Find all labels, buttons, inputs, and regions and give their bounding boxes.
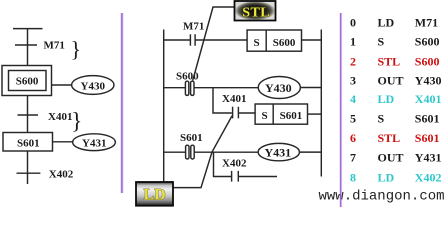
contact X402 [232,171,239,182]
wire S S600 box to right rail [302,39,322,41]
svg-text:2: 2 [350,55,356,69]
contact X401 [233,107,239,119]
svg-text:S601: S601 [280,110,303,122]
coil ellipse Y430 (ladder) [258,77,300,99]
STL contact S600 (double thick bars) [185,81,188,95]
svg-text:S600: S600 [415,55,440,69]
state S600 outer box (initial step, double border) [2,66,52,96]
svg-text:STL: STL [242,6,270,21]
svg-text:1: 1 [350,34,356,48]
purple separator line 1 [121,13,123,193]
svg-text:Y431: Y431 [265,146,292,160]
svg-text:X401: X401 [222,93,246,105]
instruction list row 5: S S601 [350,112,439,126]
svg-text:6: 6 [350,131,356,145]
svg-text:LD: LD [144,187,166,204]
svg-text:X402: X402 [49,169,74,181]
rung 2 wire left [164,87,186,89]
svg-text:X402: X402 [415,170,442,184]
STL contact S601 (double thick bars) [186,145,189,159]
instruction list row 2: STL S600 (red) [350,55,439,69]
svg-text:M71: M71 [415,16,438,30]
svg-text:}: } [71,109,82,134]
svg-text:STL: STL [378,131,401,145]
transition tick X402 [17,172,41,174]
instruction list row 1: S S600 [350,34,439,48]
coil ellipse Y430 (left panel) [72,76,114,95]
set box S S600 [247,30,301,51]
svg-text:STL: STL [378,55,401,69]
purple separator line 2 [340,13,342,207]
rung 1 wire left [164,39,191,41]
instruction list row 8: LD X402 (cyan) [350,170,441,184]
instruction list row 6: STL S601 (red) [350,131,439,145]
svg-text:8: 8 [350,170,356,184]
svg-text:S: S [378,34,385,48]
LD callout leader wire [173,116,232,188]
svg-text:}: } [71,37,82,62]
svg-text:3: 3 [350,74,356,88]
wire STL contact to Y431 [194,151,258,153]
state S600 inner box [9,71,47,91]
svg-text:X402: X402 [222,157,247,169]
transition tick M71 [15,44,37,46]
svg-text:www.diangon.com: www.diangon.com [319,189,445,205]
transition tick X401 [18,114,39,116]
svg-text:X401: X401 [48,111,72,123]
svg-text:Y430: Y430 [265,81,292,95]
ladder left rail [163,30,165,182]
wire S S601 box to right rail [308,113,322,115]
svg-text:Y430: Y430 [415,74,442,88]
wire S600 box to Y430 [52,84,72,86]
wire STL contact to Y430 [194,87,258,89]
svg-text:OUT: OUT [378,151,404,165]
instruction list row 0: LD M71 [350,16,438,30]
svg-text:4: 4 [350,92,356,106]
initial step top bar [13,28,43,30]
svg-text:S: S [254,37,260,49]
svg-text:S: S [262,110,268,122]
svg-text:5: 5 [350,112,356,126]
left panel SFC main vertical wire [27,29,29,184]
wire Y431 to right rail [300,151,322,153]
svg-text:M71: M71 [183,21,204,33]
svg-text:Y431: Y431 [82,137,106,149]
contact M71 [190,34,195,46]
wire contact M71 to S S600 box [195,39,247,41]
svg-text:OUT: OUT [378,74,404,88]
svg-text:S600: S600 [415,34,440,48]
STL callout leader wire [193,7,235,81]
branch wire down to X402 rung [214,152,232,176]
svg-text:X401: X401 [415,92,442,106]
instruction list row 3: OUT Y430 [350,74,441,88]
coil ellipse Y431 (ladder) [258,143,299,160]
set box S S601 [255,104,307,124]
coil ellipse Y431 (left panel) [73,134,116,151]
svg-text:S601: S601 [415,112,440,126]
svg-text:S601: S601 [17,138,40,150]
wire Y430 to right rail [300,87,321,89]
wire after contact X402 [238,176,277,178]
svg-text:S601: S601 [180,132,203,144]
instruction list row 4: LD X401 (cyan) [350,92,441,106]
svg-text:LD: LD [378,170,395,184]
instruction list row 7: OUT Y431 [350,151,441,165]
state S601 box [3,133,53,152]
branch wire down to X401 rung [213,88,232,113]
svg-text:S601: S601 [415,131,440,145]
LD callout box [136,182,173,206]
rung 3 wire left [164,151,186,153]
wire S601 box to Y431 [53,141,73,143]
svg-text:M71: M71 [44,40,65,52]
STL callout box [235,1,276,21]
svg-text:0: 0 [350,16,356,30]
svg-text:Y430: Y430 [81,80,106,92]
svg-text:7: 7 [350,151,356,165]
svg-text:Y431: Y431 [415,151,442,165]
svg-text:LD: LD [378,92,395,106]
svg-text:S: S [378,112,385,126]
svg-text:LD: LD [378,16,395,30]
wire contact X401 to S S601 box [238,112,255,114]
svg-text:S600: S600 [16,76,39,88]
ladder right rail [320,30,322,177]
svg-text:S600: S600 [273,37,296,49]
